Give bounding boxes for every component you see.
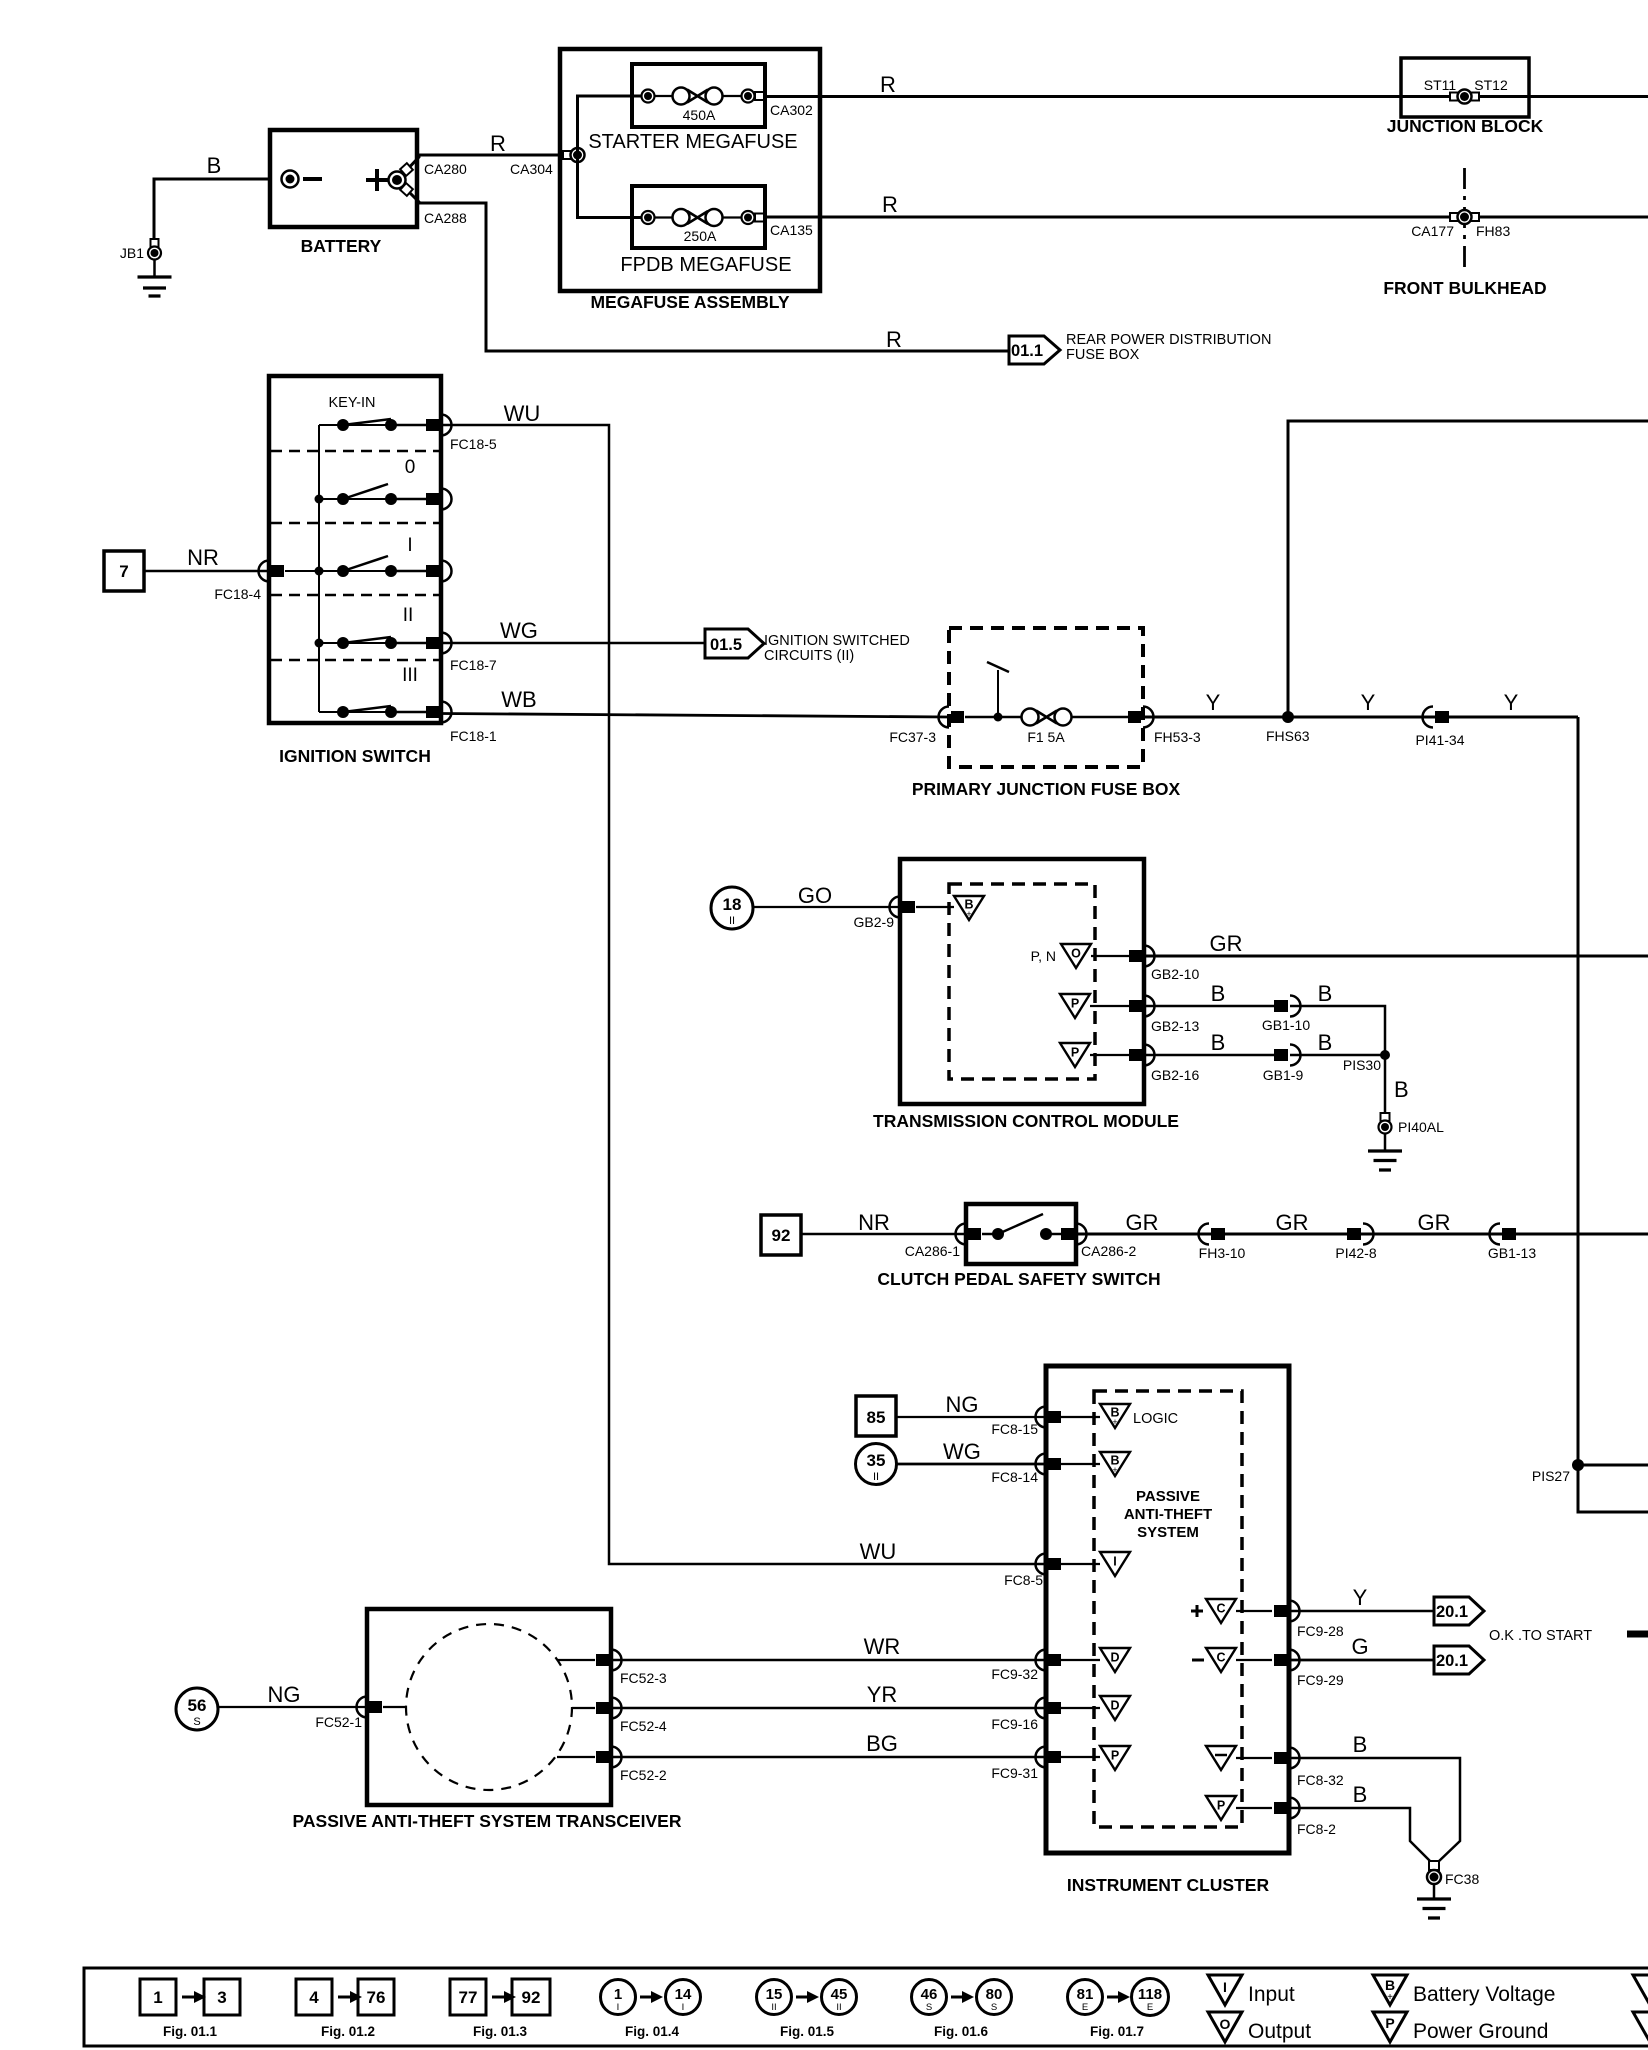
ignition switch pin FC18-5 <box>426 415 452 436</box>
wire B GB2-16 to GB1-9 <box>1144 1054 1276 1057</box>
svg-text:JB1: JB1 <box>120 245 144 261</box>
svg-text:CA286-1: CA286-1 <box>905 1243 960 1259</box>
label FHS63 <box>1266 728 1310 744</box>
megafuse assembly <box>560 49 820 291</box>
svg-text:85: 85 <box>867 1408 886 1427</box>
svg-text:YR: YR <box>867 1682 898 1707</box>
pin GB2-10 <box>1129 946 1155 967</box>
legend cropped triangle lower <box>1633 2012 1648 2042</box>
FPDB megafuse box <box>632 186 765 248</box>
label YR <box>867 1682 898 1707</box>
TCM internal dashed box <box>949 884 1095 1079</box>
label REAR POWER DISTRIBUTION FUSE BOX <box>1066 332 1271 363</box>
transceiver coil dashed circle <box>406 1624 572 1790</box>
legend circles fig 01.4 <box>601 1980 701 2015</box>
off-page arrow 20.1 lower <box>1434 1646 1484 1674</box>
input triangle <box>1046 1552 1130 1576</box>
wire megafuse internal split <box>578 96 642 218</box>
svg-text:Y: Y <box>1361 690 1376 715</box>
label FC52-2 <box>620 1767 667 1783</box>
label CA286-2 <box>1081 1243 1136 1259</box>
label WR <box>864 1634 901 1659</box>
label NG 56 <box>268 1682 301 1707</box>
minus triangle right <box>1206 1746 1272 1770</box>
svg-text:II: II <box>873 1471 879 1483</box>
legend circles fig 01.6 <box>912 1980 1012 2015</box>
label FC38 <box>1445 1871 1479 1887</box>
svg-text:15: 15 <box>766 1986 783 2003</box>
eyelet PI40AL <box>1379 1113 1392 1134</box>
off-page arrow 20.1 upper <box>1434 1597 1484 1625</box>
label Y middle <box>1361 690 1376 715</box>
ignition switch position I contact <box>285 556 428 577</box>
label FRONT BULKHEAD <box>1383 278 1546 298</box>
battery voltage triangle 2 <box>1046 1452 1130 1476</box>
svg-text:FC9-28: FC9-28 <box>1297 1623 1344 1639</box>
label GB1-10 <box>1262 1017 1310 1033</box>
ignition switch position II contact <box>315 637 429 649</box>
ignition switch pin FC18-7 <box>426 633 452 654</box>
node 92 <box>761 1215 801 1255</box>
label CA135 <box>770 222 813 238</box>
svg-text:O.K .TO START: O.K .TO START <box>1489 1628 1592 1644</box>
svg-text:WB: WB <box>501 687 536 712</box>
pin FC8-2 <box>1274 1798 1300 1819</box>
svg-text:GB1-9: GB1-9 <box>1263 1067 1304 1083</box>
label WG 35 <box>943 1439 981 1464</box>
connector CA304 entry eyelet <box>563 148 585 162</box>
label JUNCTION BLOCK <box>1387 116 1544 136</box>
ignition switch pin FC18-1 <box>426 702 452 723</box>
minus C triangle <box>1192 1648 1272 1672</box>
wire B FC8-32 to FC38 <box>1289 1758 1460 1863</box>
legend input triangle <box>1208 1975 1295 2006</box>
wire GR clutch to right edge <box>1076 1233 1648 1236</box>
svg-text:CA302: CA302 <box>770 102 813 118</box>
svg-text:PI40AL: PI40AL <box>1398 1119 1444 1135</box>
ignition switch position III contact <box>319 706 428 718</box>
wire NR node92 to clutch switch <box>801 1233 966 1236</box>
power ground triangle GB2-16 <box>1060 1043 1130 1067</box>
wire stub right edge <box>1627 1631 1648 1638</box>
svg-text:GB2-9: GB2-9 <box>854 914 895 930</box>
starter megafuse element 450A <box>642 88 765 124</box>
label GB2-13 <box>1151 1018 1199 1034</box>
svg-text:56: 56 <box>188 1696 207 1715</box>
label B 2 <box>1318 981 1333 1006</box>
pin FC8-32 <box>1274 1748 1300 1769</box>
wire G cluster to 20.1 <box>1289 1659 1434 1662</box>
connector CA288 <box>400 183 413 196</box>
label Y right <box>1504 690 1519 715</box>
legend circles fig 01.5 <box>757 1980 857 2015</box>
svg-text:I: I <box>617 2002 620 2013</box>
label Fig. 01.3 <box>473 2024 528 2039</box>
label R fpdb <box>882 192 898 217</box>
node PIS30 <box>1380 1050 1390 1060</box>
label PI42-8 <box>1335 1245 1376 1261</box>
label FC8-5 <box>1004 1572 1043 1588</box>
svg-text:PI42-8: PI42-8 <box>1335 1245 1376 1261</box>
wire B FC8-2 to FC38 <box>1289 1808 1432 1863</box>
label FC18-7 <box>450 657 497 673</box>
svg-text:FC9-32: FC9-32 <box>991 1666 1038 1682</box>
label FC8-32 <box>1297 1772 1344 1788</box>
P triangle right <box>1206 1796 1272 1820</box>
svg-text:46: 46 <box>921 1986 938 2003</box>
power ground triangle GB2-13 <box>1060 994 1130 1018</box>
svg-text:ANTI-THEFT: ANTI-THEFT <box>1124 1506 1212 1523</box>
label III <box>402 665 418 686</box>
pin GB2-16 <box>1129 1045 1155 1066</box>
label Fig. 01.6 <box>934 2024 989 2039</box>
label R rear feed <box>886 327 902 352</box>
svg-text:JUNCTION BLOCK: JUNCTION BLOCK <box>1387 116 1544 136</box>
pin CA286-2 <box>1061 1224 1087 1245</box>
wire battery positive to CA288 rear feed <box>403 186 1009 351</box>
pin GB2-9 <box>890 897 955 918</box>
svg-text:GB2-10: GB2-10 <box>1151 966 1199 982</box>
label CA280 <box>424 161 467 177</box>
wire Y cluster to 20.1 <box>1289 1610 1434 1613</box>
label WG <box>500 618 538 643</box>
label B 4 <box>1318 1030 1333 1055</box>
svg-text:NG: NG <box>268 1682 301 1707</box>
svg-text:20.1: 20.1 <box>1436 1652 1468 1670</box>
svg-text:GB2-16: GB2-16 <box>1151 1067 1199 1083</box>
ignition switch <box>269 376 441 723</box>
label BG <box>866 1731 898 1756</box>
node 7 <box>104 551 144 591</box>
svg-text:FC8-14: FC8-14 <box>991 1469 1038 1485</box>
wire NG node56 to transceiver <box>218 1706 367 1708</box>
svg-text:FC8-15: FC8-15 <box>991 1421 1038 1437</box>
svg-text:B: B <box>1353 1732 1368 1757</box>
svg-text:Fig. 01.1: Fig. 01.1 <box>163 2024 218 2039</box>
svg-text:FC52-3: FC52-3 <box>620 1670 667 1686</box>
wire WR transceiver to cluster <box>611 1659 1046 1662</box>
pin FC9-29 <box>1274 1650 1300 1671</box>
svg-text:R: R <box>882 192 898 217</box>
svg-text:INSTRUMENT CLUSTER: INSTRUMENT CLUSTER <box>1067 1875 1270 1895</box>
pin FC9-32 <box>1036 1650 1062 1671</box>
svg-text:FC38: FC38 <box>1445 1871 1479 1887</box>
svg-text:B: B <box>1211 1030 1226 1055</box>
svg-text:WU: WU <box>860 1539 897 1564</box>
svg-text:I: I <box>1223 1979 1227 1995</box>
plus C triangle <box>1191 1599 1272 1623</box>
label FH83 <box>1476 223 1510 239</box>
svg-text:CIRCUITS (II): CIRCUITS (II) <box>764 648 854 664</box>
label FC8-2 <box>1297 1821 1336 1837</box>
label Fig. 01.5 <box>780 2024 835 2039</box>
legend circles fig 01.7 <box>1068 1979 1169 2016</box>
FPDB megafuse element 250A <box>642 209 765 244</box>
transmission control module <box>900 859 1144 1104</box>
svg-text:FC18-4: FC18-4 <box>214 586 261 602</box>
svg-text:WG: WG <box>500 618 538 643</box>
legend power ground triangle <box>1373 2012 1548 2043</box>
svg-text:FC18-7: FC18-7 <box>450 657 497 673</box>
pin FC9-16 <box>1036 1698 1062 1719</box>
svg-text:Fig. 01.5: Fig. 01.5 <box>780 2024 835 2039</box>
label IGNITION SWITCHED CIRCUITS (II) <box>764 633 910 664</box>
pin FC8-5 <box>1036 1554 1062 1575</box>
svg-text:GB1-13: GB1-13 <box>1488 1245 1536 1261</box>
label INSTRUMENT CLUSTER <box>1067 1875 1270 1895</box>
label IGNITION SWITCH <box>279 746 431 766</box>
svg-text:I: I <box>682 2002 685 2013</box>
svg-text:MEGAFUSE ASSEMBLY: MEGAFUSE ASSEMBLY <box>590 292 789 312</box>
svg-text:S: S <box>193 1716 200 1728</box>
svg-text:Battery Voltage: Battery Voltage <box>1413 1983 1555 2006</box>
label B FC8-2 <box>1353 1782 1368 1807</box>
label B <box>207 153 222 178</box>
junction block <box>1401 58 1529 117</box>
wire B PIS30 to PI40AL <box>1384 1055 1387 1114</box>
svg-text:92: 92 <box>772 1226 791 1245</box>
svg-text:GR: GR <box>1210 931 1243 956</box>
svg-text:CLUTCH PEDAL SAFETY SWITCH: CLUTCH PEDAL SAFETY SWITCH <box>877 1269 1160 1289</box>
ignition switch common bus <box>318 425 320 712</box>
label FC18-4 <box>214 586 261 602</box>
legend bar <box>84 1968 1648 2046</box>
label I <box>407 535 412 556</box>
svg-text:PASSIVE ANTI-THEFT SYSTEM TRAN: PASSIVE ANTI-THEFT SYSTEM TRANSCEIVER <box>293 1811 682 1831</box>
svg-text:PASSIVE: PASSIVE <box>1136 1488 1200 1505</box>
legend output triangle <box>1208 2012 1311 2043</box>
svg-text:Fig. 01.4: Fig. 01.4 <box>625 2024 680 2039</box>
label GB1-13 <box>1488 1245 1536 1261</box>
svg-text:F1 5A: F1 5A <box>1027 729 1065 745</box>
node 56 circle <box>176 1688 218 1730</box>
svg-text:01.1: 01.1 <box>1011 342 1043 360</box>
svg-text:STARTER MEGAFUSE: STARTER MEGAFUSE <box>588 131 797 153</box>
label MEGAFUSE ASSEMBLY <box>590 292 789 312</box>
svg-text:II: II <box>836 2002 841 2013</box>
ground JB1 <box>138 259 172 296</box>
pin GB2-13 <box>1129 996 1155 1017</box>
connector PI41-34 <box>1423 707 1450 728</box>
svg-text:E: E <box>1082 2002 1088 2013</box>
wire B battery negative to JB1 <box>154 179 270 241</box>
svg-text:FH3-10: FH3-10 <box>1199 1245 1246 1261</box>
svg-text:Fig. 01.6: Fig. 01.6 <box>934 2024 989 2039</box>
svg-text:45: 45 <box>831 1986 848 2003</box>
label CA286-1 <box>905 1243 960 1259</box>
label 0 <box>405 457 416 478</box>
svg-text:FH53-3: FH53-3 <box>1154 729 1201 745</box>
svg-text:TRANSMISSION CONTROL MODULE: TRANSMISSION CONTROL MODULE <box>873 1111 1179 1131</box>
label FC9-28 <box>1297 1623 1344 1639</box>
svg-text:II: II <box>729 915 735 927</box>
svg-text:KEY-IN: KEY-IN <box>328 395 375 411</box>
clutch pedal safety switch <box>966 1204 1076 1264</box>
label WB <box>501 687 536 712</box>
svg-text:I: I <box>407 535 412 556</box>
svg-text:BG: BG <box>866 1731 898 1756</box>
ground FC38 <box>1417 1884 1451 1918</box>
svg-text:CA135: CA135 <box>770 222 813 238</box>
svg-text:B: B <box>1353 1782 1368 1807</box>
label GB2-16 <box>1151 1067 1199 1083</box>
label Y <box>1206 690 1221 715</box>
svg-text:Output: Output <box>1248 2020 1311 2043</box>
label GR 3 <box>1418 1210 1451 1235</box>
wire GR TCM to right edge <box>1144 955 1648 958</box>
svg-text:WG: WG <box>943 1439 981 1464</box>
wire R FPDB megafuse to front bulkhead <box>764 216 1648 219</box>
label FC9-29 <box>1297 1672 1344 1688</box>
clutch switch contact <box>982 1214 1062 1240</box>
label B 3 <box>1211 1030 1226 1055</box>
battery negative terminal <box>282 171 323 188</box>
connector ST11/ST12 <box>1450 90 1479 104</box>
label FC8-15 <box>991 1421 1038 1437</box>
off-page arrow 01.1 <box>1009 336 1060 364</box>
eyelet FC38 <box>1427 1861 1441 1884</box>
svg-text:77: 77 <box>459 1988 478 2007</box>
svg-text:250A: 250A <box>684 228 717 244</box>
svg-text:NG: NG <box>946 1392 979 1417</box>
wire GO to TCM <box>753 906 900 908</box>
PATS dashed box <box>1094 1391 1242 1827</box>
label FH3-10 <box>1199 1245 1246 1261</box>
svg-text:P: P <box>1385 2015 1394 2031</box>
label FC52-1 <box>315 1714 362 1730</box>
svg-text:GB2-13: GB2-13 <box>1151 1018 1199 1034</box>
pin FC52-2 <box>557 1747 622 1768</box>
label TRANSMISSION CONTROL MODULE <box>873 1111 1179 1131</box>
svg-text:FC18-1: FC18-1 <box>450 728 497 744</box>
svg-text:80: 80 <box>986 1986 1003 2003</box>
svg-text:CA286-2: CA286-2 <box>1081 1243 1136 1259</box>
svg-text:450A: 450A <box>683 107 716 123</box>
label GB1-9 <box>1263 1067 1304 1083</box>
wire YR transceiver to cluster <box>611 1707 1046 1710</box>
label PASSIVE ANTI-THEFT SYSTEM <box>1124 1488 1212 1541</box>
svg-text:Input: Input <box>1248 1983 1295 2006</box>
wire NG node85 to cluster <box>896 1416 1046 1418</box>
wire B GB2-13 to GB1-10 <box>1144 1005 1276 1008</box>
svg-text:S: S <box>991 2002 997 2013</box>
svg-text:G: G <box>1351 1634 1368 1659</box>
label WU cluster <box>860 1539 897 1564</box>
label PI41-34 <box>1415 732 1464 748</box>
svg-text:FPDB MEGAFUSE: FPDB MEGAFUSE <box>620 254 791 276</box>
connector GB1-13 <box>1490 1224 1517 1245</box>
label GR 1 <box>1126 1210 1159 1235</box>
passive anti-theft system transceiver <box>367 1609 611 1805</box>
label FC52-4 <box>620 1718 667 1734</box>
svg-text:76: 76 <box>367 1988 386 2007</box>
svg-text:LOGIC: LOGIC <box>1133 1411 1178 1427</box>
ignition switch section dividers <box>271 451 439 660</box>
wire WG node35 to cluster <box>897 1463 1046 1466</box>
primary junction fuse box <box>949 628 1143 767</box>
svg-text:E: E <box>1147 2002 1153 2013</box>
pin FC8-15 <box>1036 1407 1062 1428</box>
wire Y drop right side <box>1578 717 1648 1512</box>
svg-text:4: 4 <box>309 1988 319 2007</box>
ignition switch position 0 contact <box>315 484 429 505</box>
label FC8-14 <box>991 1469 1038 1485</box>
svg-text:FC9-31: FC9-31 <box>991 1765 1038 1781</box>
svg-text:Y: Y <box>1504 690 1519 715</box>
legend squares fig 01.3 <box>450 1979 550 2015</box>
label PASSIVE ANTI-THEFT SYSTEM TRANSCEIVER <box>293 1811 682 1831</box>
instrument cluster <box>1046 1366 1289 1853</box>
node 85 <box>856 1396 896 1436</box>
label CA177 <box>1411 223 1454 239</box>
svg-text:FC9-29: FC9-29 <box>1297 1672 1344 1688</box>
svg-text:+: + <box>1387 1992 1393 2003</box>
label FH53-3 <box>1154 729 1201 745</box>
label ST12 <box>1474 77 1508 93</box>
label R starter <box>880 72 896 97</box>
label NG 85 <box>946 1392 979 1417</box>
legend squares fig 01.1 <box>140 1979 240 2015</box>
svg-text:20.1: 20.1 <box>1436 1603 1468 1621</box>
svg-text:Power Ground: Power Ground <box>1413 2020 1548 2043</box>
svg-text:FC9-16: FC9-16 <box>991 1716 1038 1732</box>
svg-text:NR: NR <box>187 545 219 570</box>
connector CA177/FH83 <box>1450 210 1479 224</box>
svg-text:PI41-34: PI41-34 <box>1415 732 1464 748</box>
label B 1 <box>1211 981 1226 1006</box>
label CA302 <box>770 102 813 118</box>
svg-text:118: 118 <box>1138 1986 1162 2003</box>
svg-text:7: 7 <box>119 562 128 581</box>
label GB2-10 <box>1151 966 1199 982</box>
wire B GB1-10 to PIS30 branch <box>1290 1006 1385 1055</box>
svg-text:R: R <box>490 131 506 156</box>
svg-text:WU: WU <box>504 401 541 426</box>
starter megafuse box <box>632 64 765 127</box>
ignition switch pin row 0 <box>426 489 452 510</box>
fuse F1 5A <box>965 662 1129 745</box>
wire Y riser to top right <box>1288 421 1648 717</box>
wire battery positive to CA280/CA304 <box>403 155 562 174</box>
svg-text:GR: GR <box>1276 1210 1309 1235</box>
label STARTER MEGAFUSE <box>588 131 797 153</box>
label B 5 <box>1394 1077 1409 1102</box>
svg-text:Fig. 01.3: Fig. 01.3 <box>473 2024 528 2039</box>
wire B GB1-9 to PIS30 <box>1290 1054 1385 1057</box>
battery voltage triangle logic <box>1046 1404 1130 1428</box>
svg-text:PIS27: PIS27 <box>1532 1468 1570 1484</box>
svg-text:ST11: ST11 <box>1424 77 1457 93</box>
ignition switch pin row I right <box>426 561 452 582</box>
label Fig. 01.1 <box>163 2024 218 2039</box>
node PIS27 <box>1572 1459 1648 1471</box>
label O.K .TO START <box>1489 1628 1592 1644</box>
battery voltage triangle TCM <box>954 896 984 920</box>
label PI40AL <box>1398 1119 1444 1135</box>
svg-text:35: 35 <box>867 1451 886 1470</box>
off-page arrow 01.5 <box>705 629 764 658</box>
svg-text:NR: NR <box>858 1210 890 1235</box>
label GR 2 <box>1276 1210 1309 1235</box>
svg-text:PIS30: PIS30 <box>1343 1057 1381 1073</box>
D triangle 1 <box>1046 1648 1130 1672</box>
pin FC52-1 <box>357 1697 407 1718</box>
svg-text:FC52-1: FC52-1 <box>315 1714 362 1730</box>
battery <box>270 130 417 227</box>
svg-text:GO: GO <box>798 883 832 908</box>
svg-text:FC8-2: FC8-2 <box>1297 1821 1336 1837</box>
label PRIMARY JUNCTION FUSE BOX <box>912 779 1181 799</box>
